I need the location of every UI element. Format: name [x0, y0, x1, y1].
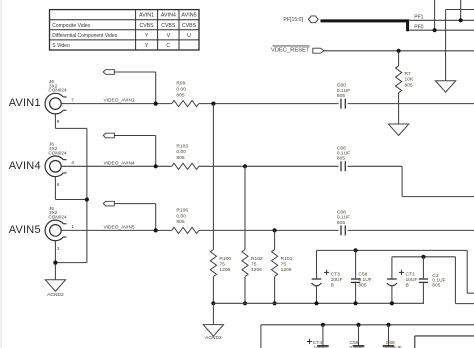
- svg-text:CON024: CON024: [48, 150, 67, 155]
- svg-text:S Video: S Video: [52, 43, 70, 49]
- svg-text:VIDEO_AVIN5: VIDEO_AVIN5: [104, 224, 135, 230]
- svg-text:Differential Component Video: Differential Component Video: [52, 33, 117, 39]
- svg-text:C58: C58: [358, 272, 367, 278]
- svg-text:C: C: [166, 43, 170, 49]
- svg-text:0.1UF: 0.1UF: [358, 277, 371, 283]
- svg-text:VIDEO_AVIN1: VIDEO_AVIN1: [104, 98, 135, 104]
- svg-text:CT1: CT1: [406, 272, 416, 278]
- svg-text:805: 805: [337, 220, 345, 226]
- svg-text:AGND2: AGND2: [47, 292, 64, 298]
- svg-text:PF0: PF0: [414, 24, 423, 30]
- svg-text:CVBS: CVBS: [161, 23, 176, 29]
- svg-text:805: 805: [405, 82, 413, 88]
- svg-text:CON024: CON024: [48, 88, 67, 93]
- svg-text:Y: Y: [145, 33, 149, 39]
- svg-text:CVBS: CVBS: [182, 23, 197, 29]
- svg-text:C68: C68: [337, 209, 346, 215]
- svg-text:1206: 1206: [219, 267, 230, 273]
- svg-text:CT3: CT3: [331, 272, 341, 278]
- svg-text:4: 4: [71, 160, 74, 166]
- svg-text:0.1UF: 0.1UF: [337, 88, 350, 94]
- svg-text:805: 805: [337, 93, 345, 99]
- svg-text:75: 75: [219, 261, 225, 267]
- svg-text:AVIN1: AVIN1: [139, 13, 154, 19]
- svg-text:10UF: 10UF: [331, 277, 343, 283]
- svg-text:CVBS: CVBS: [140, 23, 155, 29]
- svg-text:805: 805: [176, 92, 184, 98]
- svg-text:R103: R103: [176, 143, 188, 149]
- svg-text:AGND2: AGND2: [205, 335, 222, 341]
- svg-text:0.1UF: 0.1UF: [337, 215, 350, 221]
- svg-text:AVIN5: AVIN5: [9, 224, 41, 236]
- svg-text:C66: C66: [337, 145, 346, 151]
- svg-text:R102: R102: [251, 256, 263, 262]
- svg-text:0.1UF: 0.1UF: [337, 151, 350, 157]
- svg-text:AVIN4: AVIN4: [9, 160, 41, 172]
- svg-text:R106: R106: [176, 207, 188, 213]
- svg-text:805: 805: [176, 155, 184, 161]
- svg-text:0.00: 0.00: [176, 213, 186, 219]
- svg-text:R100: R100: [219, 256, 231, 262]
- svg-text:0.00: 0.00: [176, 87, 186, 93]
- svg-text:R101: R101: [281, 256, 293, 262]
- svg-text:9: 9: [57, 119, 60, 125]
- svg-text:805: 805: [432, 283, 440, 289]
- svg-text:VDEC_RESET: VDEC_RESET: [271, 47, 310, 53]
- svg-text:B: B: [331, 283, 334, 289]
- svg-text:VIDEO_AVIN4: VIDEO_AVIN4: [104, 160, 135, 166]
- svg-text:R7: R7: [405, 71, 412, 77]
- svg-text:6: 6: [57, 182, 60, 188]
- svg-text:0.00: 0.00: [176, 149, 186, 155]
- svg-text:R99: R99: [176, 81, 185, 87]
- svg-text:PF1: PF1: [414, 14, 423, 20]
- svg-text:U: U: [187, 33, 191, 39]
- svg-text:CON024: CON024: [48, 215, 67, 220]
- svg-text:75: 75: [281, 261, 287, 267]
- svg-text:1: 1: [71, 224, 74, 230]
- svg-text:805: 805: [176, 219, 184, 225]
- svg-text:Y: Y: [145, 43, 149, 49]
- svg-text:10K: 10K: [405, 77, 414, 83]
- svg-text:C60: C60: [337, 83, 346, 89]
- svg-text:AVIN1: AVIN1: [9, 97, 41, 109]
- svg-text:B: B: [406, 283, 409, 289]
- svg-text:AVIN5: AVIN5: [181, 13, 196, 19]
- svg-text:805: 805: [337, 156, 345, 162]
- svg-text:Composite Video: Composite Video: [52, 23, 90, 29]
- svg-text:7: 7: [71, 97, 74, 103]
- svg-text:PF[15:0]: PF[15:0]: [283, 17, 303, 23]
- svg-text:V: V: [167, 33, 171, 39]
- svg-text:75: 75: [251, 261, 257, 267]
- svg-text:10UF: 10UF: [406, 277, 418, 283]
- svg-text:AVIN4: AVIN4: [161, 13, 176, 19]
- svg-text:1206: 1206: [251, 267, 262, 273]
- svg-text:3: 3: [57, 246, 60, 252]
- svg-text:805: 805: [358, 283, 366, 289]
- svg-text:1206: 1206: [281, 267, 292, 273]
